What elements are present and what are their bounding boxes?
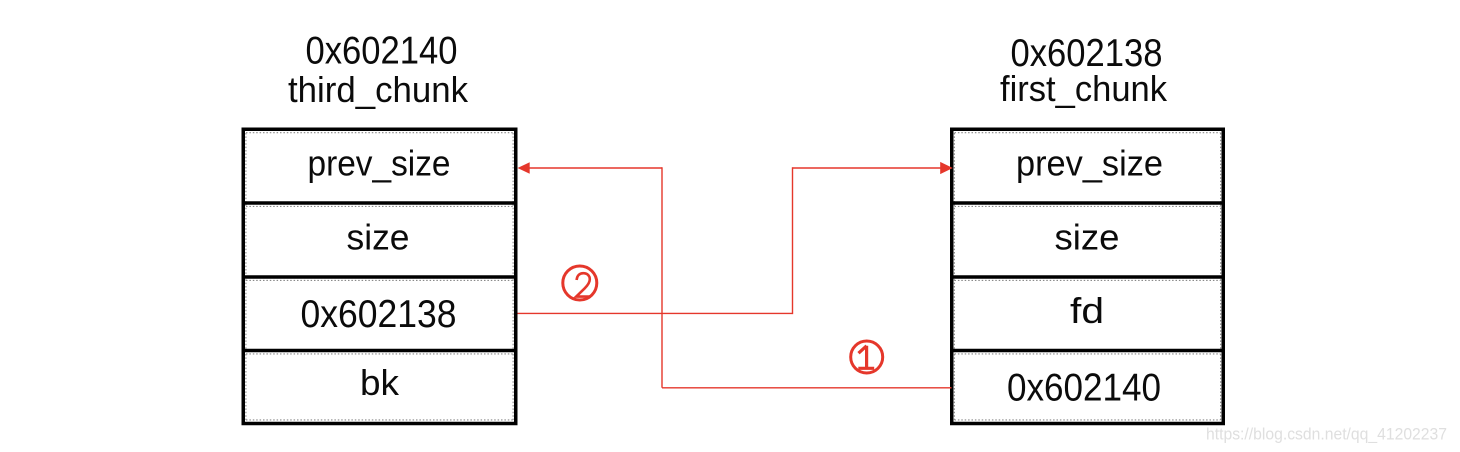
third_chunk row divider 2 bbox=[242, 277, 518, 280]
chunk box: third_chunk outer frame bbox=[243, 129, 516, 423]
svg-text:first_chunk: first_chunk bbox=[1000, 68, 1168, 109]
svg-text:0x602138: 0x602138 bbox=[301, 293, 457, 336]
svg-text:size: size bbox=[347, 217, 410, 258]
svg-text:0x602140: 0x602140 bbox=[1007, 367, 1161, 410]
svg-text:0x602140: 0x602140 bbox=[306, 30, 458, 73]
wire 2 horizontal segment from third_chunk fd-value cell bbox=[518, 312, 793, 314]
label circled 2 : digit stroke bbox=[576, 273, 591, 296]
third_chunk row divider 1 bbox=[242, 203, 518, 206]
first_chunk row divider 1 bbox=[950, 203, 1225, 206]
chunk box: first_chunk outer frame bbox=[952, 129, 1224, 423]
wire 1 horizontal segment into third_chunk prev_size bbox=[529, 167, 662, 169]
svg-text:bk: bk bbox=[360, 362, 400, 403]
wire 2 horizontal segment into first_chunk prev_size bbox=[793, 167, 941, 169]
svg-text:prev_size: prev_size bbox=[1016, 143, 1163, 184]
wire 1 horizontal segment from first_chunk bk cell bbox=[662, 387, 952, 389]
first_chunk row divider 3 bbox=[950, 351, 1225, 354]
svg-text:prev_size: prev_size bbox=[308, 143, 451, 184]
svg-text:https://blog.csdn.net/qq_41202: https://blog.csdn.net/qq_41202237 bbox=[1206, 425, 1447, 444]
label circled 1 : digit strokes bbox=[858, 346, 874, 369]
svg-text:fd: fd bbox=[1070, 290, 1104, 331]
svg-text:third_chunk: third_chunk bbox=[288, 69, 469, 110]
wire 2 vertical segment bbox=[792, 167, 794, 314]
wire 1 vertical segment bbox=[661, 167, 663, 387]
third_chunk row divider 3 bbox=[242, 351, 518, 354]
wire 2 arrowhead pointing right at first_chunk prev_size bbox=[940, 162, 953, 174]
wire 1 arrowhead pointing left at third_chunk prev_size bbox=[518, 162, 530, 173]
first_chunk row divider 2 bbox=[950, 277, 1225, 280]
svg-text:size: size bbox=[1055, 217, 1120, 258]
label circled 1 : circle bbox=[851, 341, 883, 373]
label circled 2 : circle bbox=[563, 266, 597, 300]
